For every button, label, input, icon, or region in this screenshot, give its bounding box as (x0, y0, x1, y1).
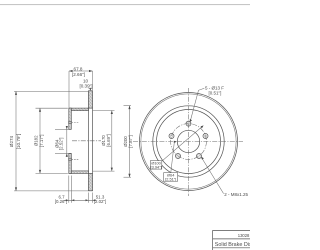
svg-text:[10.79"]: [10.79"] (16, 134, 21, 150)
flange lower (69, 153, 72, 173)
leader 5-O13 (190, 88, 204, 121)
center bore (177, 130, 199, 152)
centerline (72, 140, 101, 142)
hat bottom wall (69, 171, 89, 174)
label box O100 (150, 161, 162, 169)
svg-text:[0.51"]: [0.51"] (209, 91, 222, 96)
dim O274: extension lines (14, 90, 89, 92)
dim O64 bore: ticks (55, 128, 69, 130)
svg-text:[2.02"]: [2.02"] (94, 199, 107, 204)
dim O200 line (129, 106, 131, 178)
svg-text:[2.51"]: [2.51"] (165, 177, 176, 182)
dim O200 ticks (124, 105, 132, 107)
disc bar hatch top (89, 91, 93, 108)
svg-text:67.8: 67.8 (74, 66, 83, 71)
svg-text:10: 10 (83, 78, 89, 83)
svg-text:[2.52"]: [2.52"] (59, 138, 64, 151)
svg-text:[7.87"]: [7.87"] (128, 135, 133, 148)
dim O170 line (111, 111, 113, 172)
dim O182: extension ticks (36, 107, 68, 109)
label box O64 (164, 173, 178, 182)
bolt hole marks in flange (69, 121, 72, 123)
leader 2-M8 (202, 158, 224, 194)
svg-text:[7.17"]: [7.17"] (39, 135, 44, 148)
disc bar hatch bottom (89, 174, 93, 191)
hat top wall (69, 108, 89, 111)
hidden bolt lines (72, 121, 79, 123)
lug hole upper-right (203, 134, 208, 139)
top border line (0, 4, 250, 5)
dim 10 arrow (89, 88, 91, 91)
lug hole upper-left (169, 134, 174, 139)
dim O182 line (39, 108, 41, 173)
svg-text:Ø182: Ø182 (33, 135, 38, 146)
svg-text:Ø274: Ø274 (9, 135, 14, 147)
outer circle OD (140, 93, 238, 191)
svg-text:[6.69"]: [6.69"] (106, 134, 111, 147)
lug hole lower-right (197, 154, 202, 159)
dim 67.8: extensions (68, 71, 70, 108)
bottom dim line (64, 199, 96, 201)
lug hole top (186, 121, 191, 126)
svg-text:13028: 13028 (238, 233, 250, 238)
svg-text:[0.26"]: [0.26"] (55, 199, 68, 204)
leader O100 (162, 126, 203, 161)
lug hole lower-left (176, 154, 181, 159)
hat circle O182 (157, 110, 221, 174)
disc faces middle (88, 108, 90, 173)
chamfer circle (141, 94, 236, 189)
vertical centerline (188, 88, 190, 196)
dim 67.8 line (69, 70, 93, 72)
bottom dims extensions (68, 176, 70, 203)
svg-text:[2.66"]: [2.66"] (72, 72, 85, 77)
leader O64 (171, 142, 177, 173)
bore gap edges (69, 128, 72, 130)
dim O170: ticks (93, 110, 115, 112)
dim O274 line (15, 91, 17, 190)
dim O64 line (66, 126, 68, 157)
horizontal centerline (133, 141, 243, 143)
svg-text:2 - M8x1.25: 2 - M8x1.25 (224, 192, 248, 197)
flange upper (69, 108, 72, 129)
svg-text:Solid Brake Disc: Solid Brake Disc (215, 242, 250, 248)
svg-text:[3.94"]: [3.94"] (151, 164, 162, 169)
bolt circle (171, 124, 207, 160)
friction inner circle O200 (153, 106, 224, 177)
